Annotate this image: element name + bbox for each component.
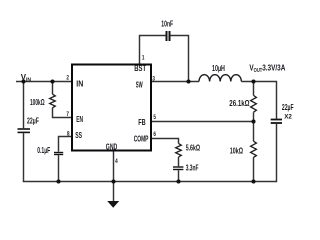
svg-text:EN: EN xyxy=(76,116,83,124)
wire FB xyxy=(152,121,254,123)
ground symbol arrow xyxy=(107,201,119,208)
wire BST loop left xyxy=(139,36,166,65)
svg-text:10kΩ: 10kΩ xyxy=(230,148,244,156)
svg-text:IN: IN xyxy=(76,79,83,89)
resistor R3 10k zigzag xyxy=(251,141,257,157)
inductor L1 10uH xyxy=(199,75,241,82)
resistor R4 5.6k zigzag xyxy=(176,144,182,158)
capacitor C3 0.1uF plates xyxy=(54,153,63,155)
svg-text:1: 1 xyxy=(142,55,145,62)
node I dot rail 10k xyxy=(251,179,255,183)
wire 26.1k top xyxy=(253,82,255,96)
wire bottom rail xyxy=(23,181,277,183)
wire 26.1k bottom xyxy=(253,112,255,121)
svg-text:5.6kΩ: 5.6kΩ xyxy=(186,145,201,153)
resistor R1 100k zigzag xyxy=(50,94,56,108)
node E dot FB divider xyxy=(251,119,255,123)
wire COMP xyxy=(152,138,179,144)
capacitor C1 10nF plates xyxy=(167,31,170,41)
svg-text:2: 2 xyxy=(66,75,69,82)
node H dot rail RC xyxy=(176,179,180,183)
wire GND pin stub xyxy=(113,152,115,182)
svg-text:SW: SW xyxy=(136,81,143,90)
svg-text:0.1µF: 0.1µF xyxy=(37,147,50,155)
wire 0.1uF cap to rail xyxy=(58,155,60,181)
wire SS pin8 to cap xyxy=(59,136,72,152)
wire 5.6k to 3.3nF xyxy=(178,157,180,166)
svg-text:26.1kΩ: 26.1kΩ xyxy=(229,98,249,108)
svg-text:GND: GND xyxy=(106,144,118,152)
wire 3.3nF to rail xyxy=(178,170,180,181)
wire 100k branch top xyxy=(52,82,54,95)
wire SW to inductor xyxy=(152,81,199,83)
node B dot VIN-100k xyxy=(50,79,54,83)
node G dot rail GND xyxy=(111,179,115,183)
svg-text:10µH: 10µH xyxy=(212,65,225,73)
wire VIN input xyxy=(16,81,71,83)
svg-text:3: 3 xyxy=(152,76,155,83)
wire 22uF input branch bottom xyxy=(23,133,25,182)
node D dot VOUT xyxy=(251,79,255,83)
resistor R2 26.1k zigzag xyxy=(251,95,257,112)
node A dot VIN-22uF xyxy=(21,79,25,83)
capacitor C5 22uF output plates xyxy=(271,120,282,124)
capacitor C2 22uF input plates xyxy=(18,129,31,132)
capacitor C4 3.3nF plates xyxy=(173,167,183,170)
svg-text:BST: BST xyxy=(134,64,146,73)
node C dot SW-BST xyxy=(186,79,190,83)
svg-text:22µF: 22µF xyxy=(282,104,294,112)
svg-text:FB: FB xyxy=(138,119,145,127)
svg-text:3.3nF: 3.3nF xyxy=(186,165,199,173)
wire output cap to rail xyxy=(276,124,278,182)
svg-text:100kΩ: 100kΩ xyxy=(30,99,45,108)
svg-text:8: 8 xyxy=(67,131,70,138)
ground stem xyxy=(113,182,115,203)
wire 10k top xyxy=(253,122,255,142)
svg-text:7: 7 xyxy=(66,111,69,118)
svg-text:6: 6 xyxy=(153,131,156,138)
wire inductor to output cap corner xyxy=(241,81,277,119)
svg-text:22µF: 22µF xyxy=(27,117,39,125)
wire 100k to EN pin7 xyxy=(52,108,71,118)
wire 22uF input branch top xyxy=(23,82,25,129)
svg-text:COMP: COMP xyxy=(134,135,149,143)
wire 10k bottom xyxy=(253,157,255,181)
svg-text:SS: SS xyxy=(75,132,82,140)
IC U1 box xyxy=(72,65,151,151)
node F dot rail 0.1uF xyxy=(56,179,60,183)
wire BST loop right xyxy=(171,35,190,82)
svg-text:5: 5 xyxy=(153,114,156,121)
svg-text:10nF: 10nF xyxy=(161,20,173,28)
svg-text:X2: X2 xyxy=(284,113,292,120)
